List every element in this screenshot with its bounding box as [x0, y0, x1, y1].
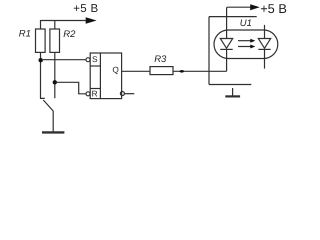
svg-text:+5 В: +5 В — [73, 3, 98, 15]
latch cell line above R — [90, 88, 100, 90]
latch cell line under S — [90, 65, 100, 67]
light arrow 1 — [238, 40, 251, 42]
wire output loop top — [209, 16, 257, 18]
wire S net — [43, 59, 86, 61]
resistor R3 — [150, 67, 173, 75]
optocoupler U1 body — [214, 30, 278, 59]
wire Q-bar stub — [124, 93, 134, 95]
wire output loop left — [208, 17, 210, 85]
wire R1 top lead — [40, 20, 42, 29]
svg-text:+5 В: +5 В — [260, 1, 287, 16]
wire Q output — [122, 70, 150, 72]
svg-text:Q: Q — [112, 64, 119, 74]
junction blob on wire — [180, 70, 184, 73]
op-amp U? SR latch box — [90, 53, 121, 99]
switch blade SA — [43, 100, 53, 111]
LED cathode bar — [220, 48, 232, 50]
svg-text:R: R — [92, 88, 98, 98]
wire photodiode bottom lead — [264, 49, 266, 68]
wire LED cathode lead — [226, 49, 228, 71]
wire output loop bottom — [209, 84, 251, 86]
latch left column divider — [99, 53, 101, 99]
inversion circle S input — [86, 58, 90, 62]
resistor R2 — [50, 29, 60, 52]
wire right ground stub — [232, 88, 234, 96]
wire R net jog — [57, 82, 86, 94]
svg-text:R3: R3 — [154, 54, 167, 65]
resistor R1 — [36, 29, 46, 52]
photodiode triangle — [258, 39, 270, 49]
node dot on R2 lead — [53, 80, 57, 84]
wire LED anode lead from +5V — [226, 7, 228, 38]
light arrow 2 — [238, 46, 251, 48]
LED triangle — [220, 39, 232, 49]
+5V arrowhead left — [86, 17, 97, 24]
wire R2 top lead — [54, 20, 56, 29]
wire R3 to LED cathode — [173, 70, 227, 72]
wire +5V rail left — [41, 20, 87, 22]
svg-text:R1: R1 — [19, 29, 31, 40]
inversion circle Q-bar output — [120, 92, 124, 96]
node dot on R1 lead — [39, 58, 43, 62]
wire +5V rail right — [227, 6, 251, 8]
photodiode cathode bar — [258, 48, 270, 50]
svg-text:R2: R2 — [63, 29, 76, 40]
inversion circle R input — [86, 92, 90, 96]
svg-text:S: S — [92, 54, 98, 64]
svg-text:U1: U1 — [240, 18, 252, 29]
ground right — [225, 95, 240, 97]
wire switch common — [52, 111, 54, 131]
ground left — [42, 131, 64, 133]
wire R2 bottom lead to switch contact — [54, 52, 56, 98]
+5V arrowhead right — [250, 4, 260, 10]
wire R1 bottom lead to switch contact — [40, 52, 45, 98]
wire photodiode top lead — [264, 25, 266, 39]
